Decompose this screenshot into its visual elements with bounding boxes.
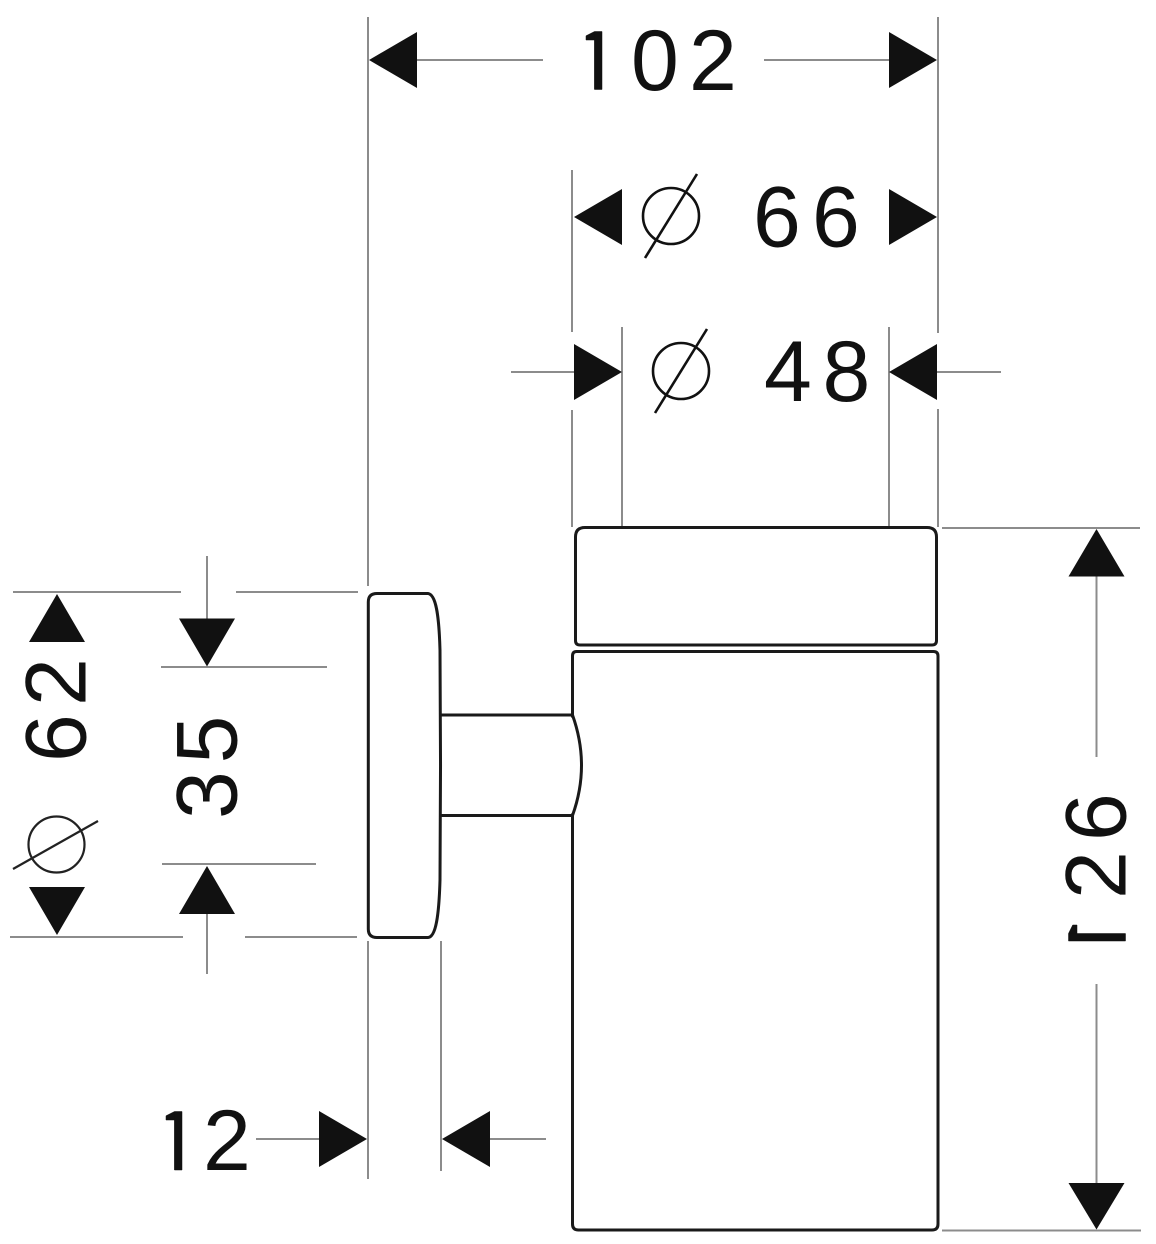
- arrow 35 down: [179, 619, 235, 667]
- wall plate: [368, 594, 440, 938]
- diameter symbol for 66: [643, 174, 699, 258]
- label 126 (rotated): [1069, 925, 1126, 941]
- extension line left of 48 (x=622): [621, 327, 623, 527]
- 12 extension line right (x=441): [440, 941, 442, 1171]
- 62 bottom boundary line (y=937): [10, 936, 183, 938]
- extension line right of 48 (x=889): [888, 327, 890, 527]
- arrow 62 up: [29, 594, 85, 642]
- arrow 126 down: [1069, 1183, 1125, 1230]
- cup body: [573, 652, 939, 1231]
- 126 top extension line (y=527): [942, 527, 1140, 529]
- dimension 102 leader left: [416, 59, 543, 61]
- 12 leader right: [488, 1138, 546, 1140]
- arrow 102 right: [889, 32, 937, 88]
- extension line right of 102/66 (cup front, x=938): [937, 17, 939, 333]
- arm bottom line: [439, 814, 573, 817]
- 35 upper riser: [206, 556, 208, 619]
- diameter symbol for 62 (rotated): [13, 817, 98, 873]
- arrow 12 right: [442, 1111, 490, 1167]
- arrow 35 up: [179, 866, 235, 914]
- arrow 102 left: [369, 32, 417, 88]
- arrow 12 left: [319, 1111, 367, 1167]
- arrow 66 right: [889, 189, 937, 245]
- extension line left of 66 (x=572): [571, 170, 573, 332]
- arrow 48 right: [889, 344, 937, 400]
- 12 leader left: [256, 1138, 320, 1140]
- arrow 126 up: [1069, 529, 1125, 577]
- svg-text:2: 2: [203, 1093, 251, 1189]
- arrow 62 down: [29, 887, 85, 935]
- erase cup edge behind arm cap: [566, 718, 576, 814]
- label 102: [586, 32, 602, 90]
- arrow 66 left: [574, 189, 622, 245]
- arm top line: [439, 714, 573, 717]
- cup rim: [576, 528, 937, 646]
- 62 top boundary line (y=592): [13, 591, 181, 593]
- dimension 48 leader left: [511, 371, 575, 373]
- extension line left of 102 (wall/plate back, x=368): [367, 17, 369, 586]
- 126 lower riser: [1096, 984, 1098, 1183]
- dimension 48 leader right: [937, 371, 1001, 373]
- 12 extension line left (x=368): [367, 941, 369, 1179]
- 126 bottom extension line (y=1227.5): [942, 1230, 1141, 1232]
- dimension 102 leader right: [764, 59, 890, 61]
- 35 lower riser: [206, 912, 208, 974]
- diameter symbol for 48: [653, 329, 709, 413]
- 126 upper riser: [1096, 577, 1098, 758]
- arrow 48 left: [574, 344, 622, 400]
- 35 top boundary line (y=667): [161, 666, 327, 668]
- 35 bottom boundary line (y=864): [162, 863, 316, 865]
- arm end cap arc: [573, 715, 582, 816]
- label 12: [166, 1112, 182, 1171]
